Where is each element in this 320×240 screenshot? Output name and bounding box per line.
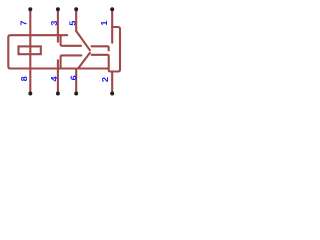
svg-text:3: 3 bbox=[50, 20, 59, 25]
switch arm pole2 bbox=[78, 53, 90, 69]
svg-text:8: 8 bbox=[20, 76, 29, 81]
pin 1 bbox=[111, 11, 113, 43]
pin 4 bbox=[57, 60, 59, 92]
pin 5 pad dot bbox=[74, 7, 78, 11]
svg-text:7: 7 bbox=[19, 20, 28, 25]
coil K1 rectangle bbox=[19, 46, 41, 54]
switch arm pole1 bbox=[76, 31, 90, 50]
pin 6 bbox=[75, 69, 77, 93]
pin 5 bbox=[75, 11, 77, 31]
pin 2 pad dot bbox=[110, 92, 114, 96]
wire pin7-coil-pin8 bbox=[29, 11, 31, 92]
svg-text:5: 5 bbox=[68, 20, 77, 25]
svg-text:2: 2 bbox=[101, 77, 110, 82]
wire upper-right throw hook bbox=[92, 46, 109, 50]
wire lower-right path and right loop bbox=[92, 27, 121, 72]
pin 6 pad dot bbox=[74, 92, 78, 96]
wire lower-left throw finger bbox=[61, 55, 82, 68]
pin 3 pad dot bbox=[56, 7, 60, 11]
pin 8 pad dot bbox=[28, 92, 32, 96]
svg-text:4: 4 bbox=[50, 76, 59, 81]
wire upper-left throw finger bbox=[61, 35, 81, 46]
wire left loop common bars bbox=[8, 35, 108, 68]
pin 7 pad dot bbox=[28, 7, 32, 11]
pin 4 pad dot bbox=[56, 92, 60, 96]
pin 2 bbox=[111, 72, 113, 93]
pin 3 bbox=[57, 11, 59, 42]
svg-text:6: 6 bbox=[69, 75, 78, 80]
svg-text:1: 1 bbox=[100, 20, 109, 25]
pin 1 pad dot bbox=[110, 7, 114, 11]
